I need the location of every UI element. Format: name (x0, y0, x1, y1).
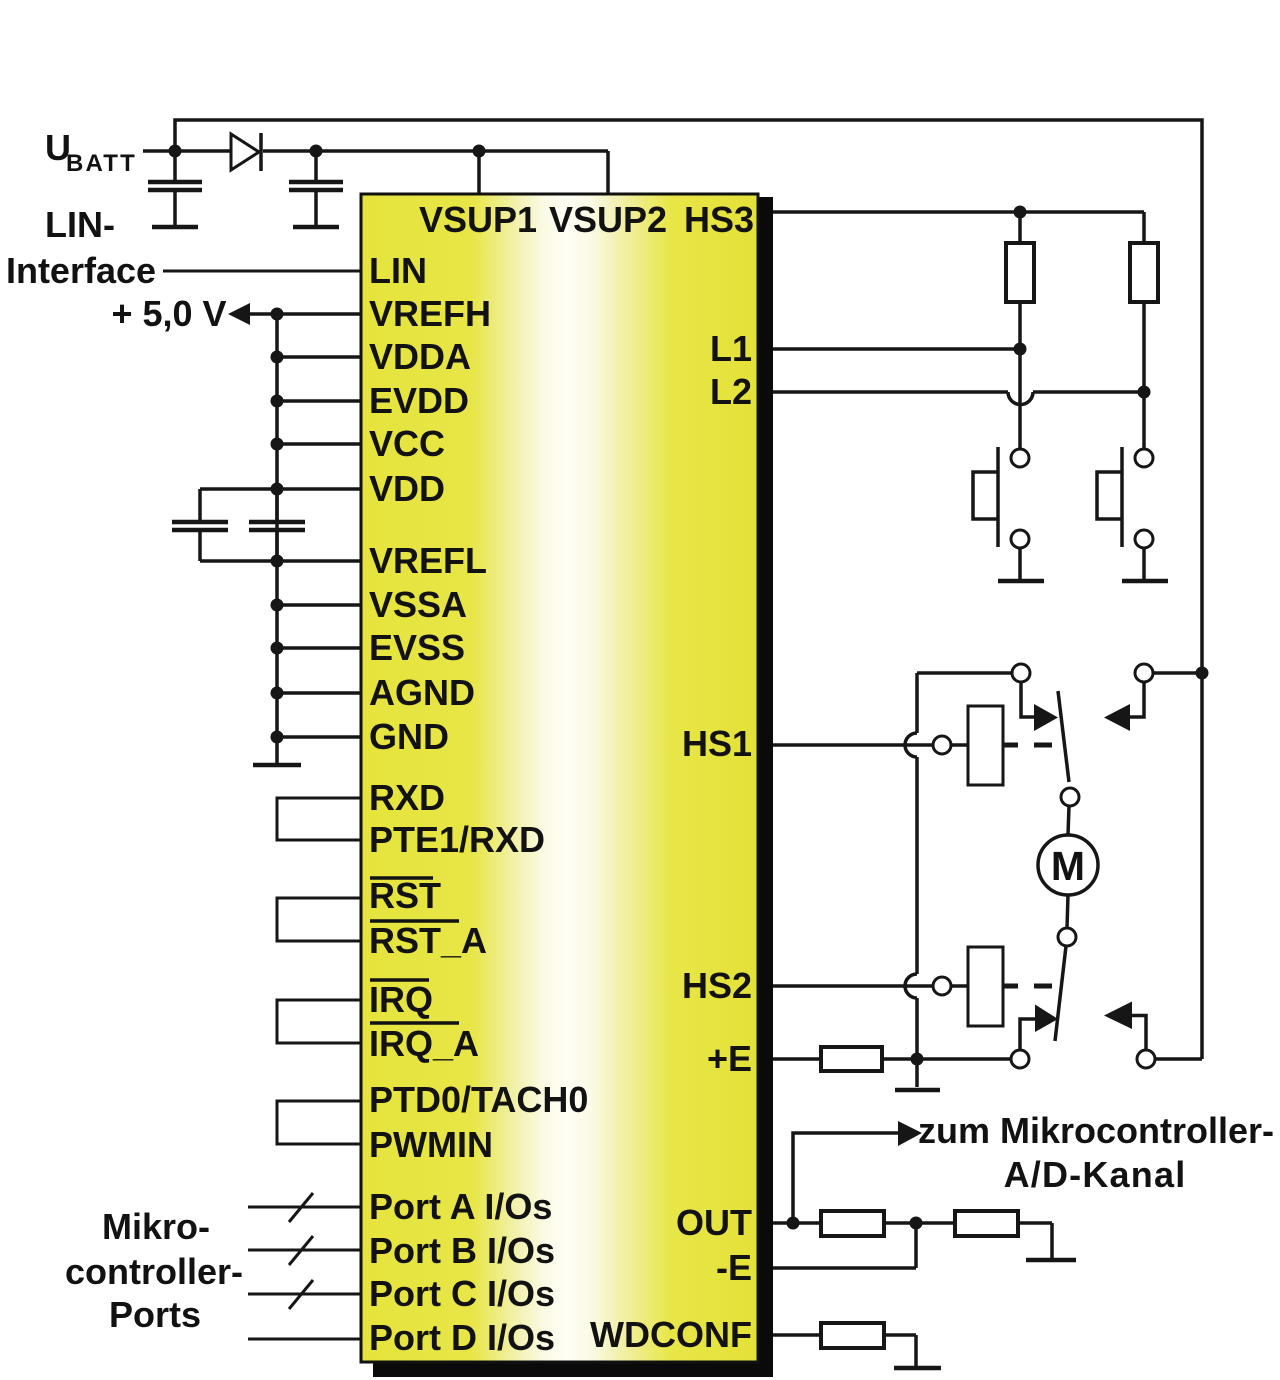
svg-text:+ 5,0 V: + 5,0 V (111, 293, 226, 334)
svg-text:Interface: Interface (6, 250, 156, 291)
svg-text:Port D I/Os: Port D I/Os (369, 1317, 555, 1358)
svg-text:Port A I/Os: Port A I/Os (369, 1186, 552, 1227)
svg-text:GND: GND (369, 716, 449, 757)
svg-text:VSSA: VSSA (369, 584, 467, 625)
svg-text:L1: L1 (710, 328, 752, 369)
svg-text:OUT: OUT (676, 1202, 752, 1243)
svg-text:PTE1/RXD: PTE1/RXD (369, 819, 545, 860)
svg-text:controller-: controller- (65, 1251, 243, 1292)
svg-text:A/D-Kanal: A/D-Kanal (1004, 1154, 1187, 1195)
svg-text:HS1: HS1 (682, 723, 752, 764)
svg-text:VDDA: VDDA (369, 336, 471, 377)
svg-text:M: M (1051, 843, 1085, 889)
svg-text:VREFL: VREFL (369, 540, 487, 581)
svg-text:EVSS: EVSS (369, 627, 465, 668)
svg-text:RST_A: RST_A (369, 920, 487, 961)
svg-text:HS3: HS3 (684, 199, 754, 240)
svg-text:AGND: AGND (369, 672, 475, 713)
svg-text:BATT: BATT (66, 150, 137, 177)
svg-text:VREFH: VREFH (369, 293, 491, 334)
svg-text:Mikro-: Mikro- (102, 1206, 210, 1247)
svg-text:VDD: VDD (369, 468, 445, 509)
svg-text:LIN: LIN (369, 250, 427, 291)
svg-text:IRQ: IRQ (369, 979, 433, 1020)
svg-text:VSUP1: VSUP1 (419, 199, 537, 240)
svg-text:L2: L2 (710, 371, 752, 412)
svg-text:WDCONF: WDCONF (590, 1314, 752, 1355)
svg-text:LIN-: LIN- (45, 204, 115, 245)
svg-text:RXD: RXD (369, 777, 445, 818)
svg-text:RST: RST (369, 875, 441, 916)
svg-text:VCC: VCC (369, 423, 445, 464)
svg-text:-E: -E (716, 1247, 752, 1288)
svg-text:PWMIN: PWMIN (369, 1124, 493, 1165)
svg-text:PTD0/TACH0: PTD0/TACH0 (369, 1079, 588, 1120)
svg-text:+E: +E (707, 1038, 752, 1079)
svg-text:IRQ_A: IRQ_A (369, 1023, 479, 1064)
svg-text:EVDD: EVDD (369, 380, 469, 421)
svg-text:Port B I/Os: Port B I/Os (369, 1230, 555, 1271)
svg-text:VSUP2: VSUP2 (549, 199, 667, 240)
svg-text:HS2: HS2 (682, 965, 752, 1006)
svg-text:Ports: Ports (109, 1294, 201, 1335)
svg-text:Port C I/Os: Port C I/Os (369, 1273, 555, 1314)
svg-text:zum Mikrocontroller-: zum Mikrocontroller- (918, 1110, 1274, 1151)
